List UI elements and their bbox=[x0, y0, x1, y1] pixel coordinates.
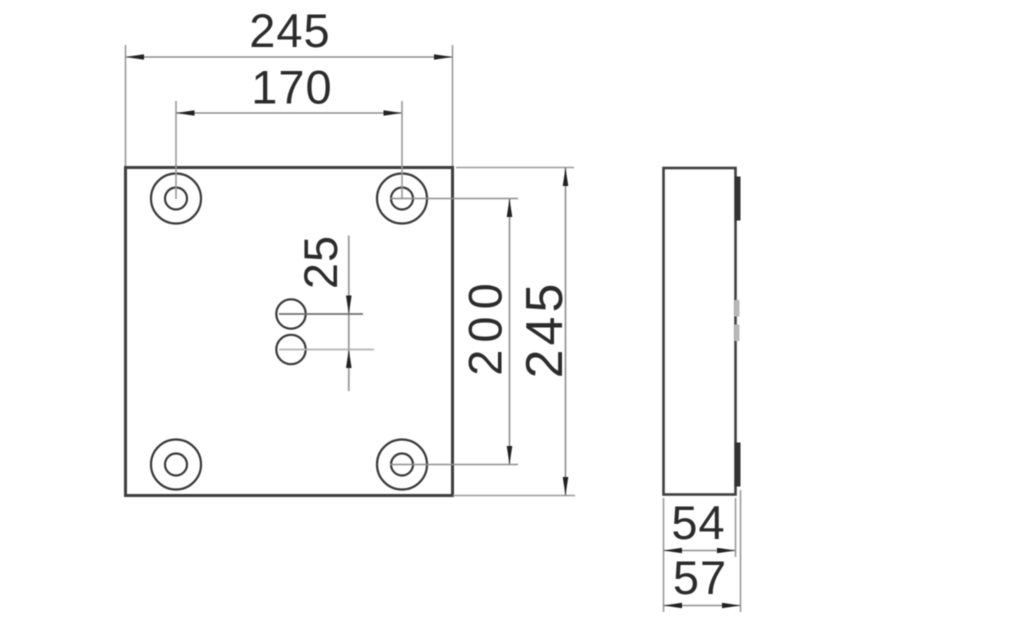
svg-text:245: 245 bbox=[516, 280, 574, 379]
side view bottom stud bbox=[735, 443, 741, 487]
svg-text:245: 245 bbox=[249, 4, 330, 57]
dimension 200: dimension line bbox=[509, 199, 511, 465]
dimension 25: lower arrowhead (pointing up) bbox=[346, 350, 352, 369]
dimension 245 top: right arrowhead bbox=[434, 54, 453, 60]
side view top stud bbox=[735, 177, 741, 221]
svg-text:25: 25 bbox=[294, 235, 347, 289]
hole top-right bbox=[377, 174, 427, 224]
dimension 245 top: extension line left bbox=[125, 45, 127, 166]
dimension 57: extension line right bbox=[740, 490, 742, 612]
dimension 54: dimension line bbox=[664, 550, 736, 552]
dimension 245 right: dimension line bbox=[565, 168, 567, 496]
dimension 54: left arrowhead bbox=[664, 548, 683, 554]
dimension 25: lower leader through lower small circle bbox=[279, 349, 374, 351]
dimension 54: extension line right bbox=[735, 498, 737, 557]
hole top-left bbox=[151, 174, 201, 224]
dimension 57: right arrowhead bbox=[722, 603, 741, 609]
dimension 245 right: extension line top bbox=[456, 167, 574, 169]
svg-text:200: 200 bbox=[459, 276, 512, 375]
dimension 170: dimension line bbox=[176, 112, 402, 114]
dimension 245 right: top arrowhead bbox=[563, 168, 569, 187]
svg-text:170: 170 bbox=[251, 61, 332, 114]
dimension 57: left arrowhead bbox=[664, 603, 683, 609]
svg-text:57: 57 bbox=[673, 551, 727, 604]
dimension 170: extension line left bbox=[175, 101, 177, 199]
dimension 245 top: dimension line bbox=[126, 56, 453, 58]
dimension 200: bottom arrowhead bbox=[507, 446, 513, 465]
small circle upper (center pair) bbox=[276, 299, 305, 328]
dimension 25: upper leader through upper small circle bbox=[279, 313, 363, 315]
dimension 54: extension line left (shared with 57) bbox=[663, 498, 665, 612]
side view body outline bbox=[664, 168, 736, 495]
dimension 200: top arrowhead bbox=[507, 199, 513, 218]
hole bottom-left bbox=[151, 440, 201, 490]
small circle lower (center pair) bbox=[276, 335, 305, 364]
dimension 200: leader from top-right hole bbox=[390, 198, 518, 200]
side view middle bump upper bbox=[735, 300, 740, 317]
plate outline (front view) bbox=[126, 168, 453, 496]
dimension 170: right arrowhead bbox=[384, 110, 403, 116]
dimension 25: vertical dimension line bbox=[348, 236, 350, 392]
svg-text:54: 54 bbox=[671, 496, 725, 549]
dimension 170: extension line right bbox=[401, 101, 403, 199]
dimension 200: leader from bottom-right hole bbox=[390, 464, 518, 466]
dimension 170: left arrowhead bbox=[176, 110, 195, 116]
dimension 245 right: bottom arrowhead bbox=[563, 477, 569, 496]
dimension 25: upper arrowhead (pointing down) bbox=[346, 296, 352, 315]
dimension 57: dimension line bbox=[664, 605, 741, 607]
dimension 245 top: left arrowhead bbox=[126, 54, 145, 60]
dimension 54: right arrowhead bbox=[717, 548, 736, 554]
hole bottom-right bbox=[377, 440, 427, 490]
dimension 245 right: extension line bottom bbox=[453, 495, 575, 497]
side view middle bump lower bbox=[735, 325, 740, 342]
dimension 245 top: extension line right bbox=[452, 45, 454, 166]
